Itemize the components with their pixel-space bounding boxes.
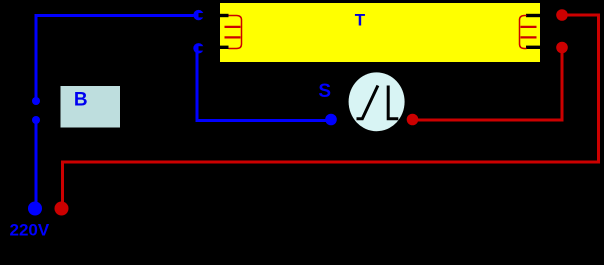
ballast B body bbox=[61, 86, 121, 128]
wire red tube right bottom pin down and left to starter right terminal bbox=[416, 51, 562, 120]
starter contact right electrode bbox=[388, 86, 398, 119]
node tube right top terminal bbox=[556, 9, 568, 21]
lamp tube T body bbox=[220, 3, 540, 62]
terminal open circle tube left top bbox=[193, 10, 205, 20]
filament right teeth bbox=[521, 27, 537, 38]
wire blue top horizontal to tube left top pin bbox=[35, 14, 194, 17]
starter contact left bent electrode bbox=[357, 86, 378, 119]
svg-text:S: S bbox=[318, 81, 331, 102]
wire red 220V up, along bottom, right side up to tube top right bbox=[63, 15, 599, 205]
node tube right bottom terminal bbox=[556, 42, 568, 54]
svg-text:T: T bbox=[355, 11, 366, 30]
tube pin left top bbox=[220, 14, 229, 17]
filament left outline bbox=[229, 16, 242, 49]
wire blue left vertical lower (ballast terminal to 220V) bbox=[35, 120, 38, 206]
tube pin right top bbox=[526, 14, 540, 17]
svg-text:220V: 220V bbox=[10, 220, 50, 239]
filament left teeth bbox=[225, 27, 241, 38]
node ballast terminal upper dot bbox=[32, 97, 40, 105]
wire blue from tube left bottom pin down bbox=[196, 50, 199, 119]
wire blue horizontal to starter left terminal bbox=[196, 119, 329, 122]
tube pin left bottom bbox=[220, 46, 229, 49]
node ballast terminal lower dot bbox=[32, 116, 40, 124]
node 220V blue terminal bbox=[28, 202, 42, 216]
wire blue left vertical upper (source to ballast terminal) bbox=[35, 16, 38, 102]
node starter left terminal bbox=[325, 114, 337, 126]
filament right outline bbox=[520, 16, 527, 49]
node starter right terminal bbox=[407, 114, 419, 126]
starter S body bbox=[349, 72, 405, 131]
node 220V red terminal bbox=[55, 202, 69, 216]
svg-text:B: B bbox=[74, 90, 88, 111]
tube pin right bottom bbox=[526, 46, 540, 49]
terminal open circle tube left bottom bbox=[193, 43, 205, 53]
